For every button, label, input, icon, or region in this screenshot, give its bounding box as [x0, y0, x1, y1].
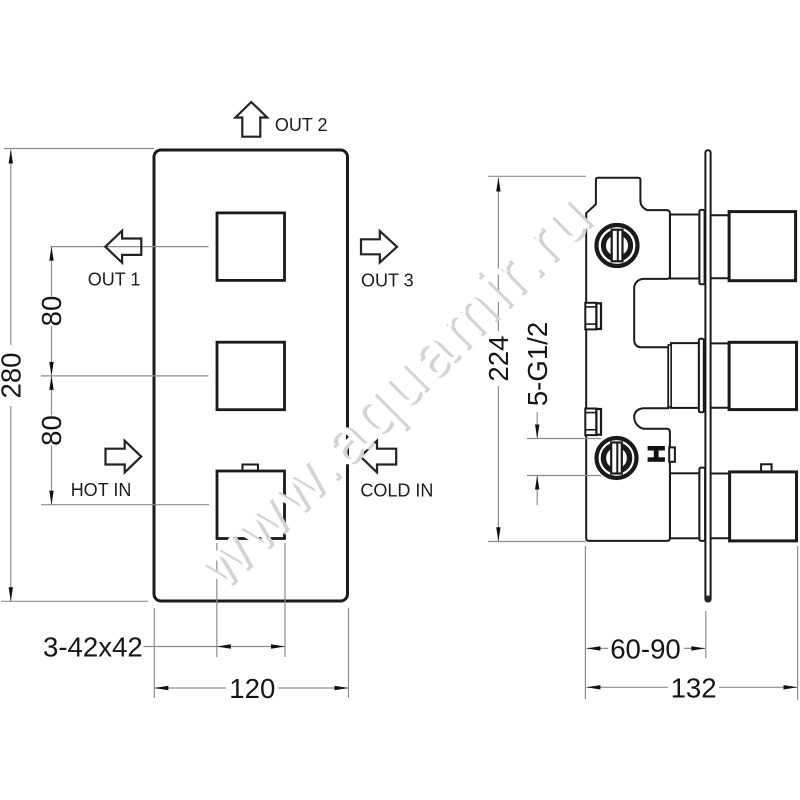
pipe stub A body: [585, 303, 596, 330]
flow arrow COLD IN: [361, 441, 397, 473]
screw top inner arcs: [604, 235, 611, 257]
sleeve row 3: [670, 473, 699, 538]
flow arrow HOT IN: [106, 441, 142, 473]
dim 60-90 line: [586, 647, 608, 649]
dim 80 lower line: [51, 376, 53, 416]
pipe stub B inner lines: [585, 412, 596, 414]
dim 132 line: [586, 686, 668, 688]
screw bottom inner arcs: [604, 448, 610, 469]
knob row 1: [729, 212, 796, 281]
sleeve row 1: [670, 215, 699, 279]
dim 5-G1/2 line lower: [536, 476, 538, 506]
screw bottom inner ring: [602, 444, 631, 473]
dim 80 lower arrowheads: [49, 376, 53, 390]
dim 42x42 arrowheads: [217, 644, 231, 648]
dim 42x42 extension line left: [216, 543, 218, 657]
center extension line row 3: [41, 504, 209, 506]
dim 280 line: [10, 150, 12, 346]
dim 224 extension line bottom: [488, 541, 586, 543]
dim 60-90 arrowheads: [586, 646, 600, 650]
flow arrow OUT 2: [235, 102, 267, 137]
dim 132 arrowheads: [586, 685, 600, 689]
flow arrow OUT 1: [105, 231, 141, 263]
screw top slot: [612, 230, 623, 262]
svg-text:5-G1/2: 5-G1/2: [522, 322, 553, 406]
dim 280 arrowhead top: [9, 150, 13, 164]
dim 60-90 extension line right: [705, 611, 707, 658]
dim 80 upper arrowheads: [49, 247, 53, 261]
dim 5-G1/2 extension lines: [527, 438, 601, 440]
flow arrow OUT 3: [361, 231, 397, 263]
pipe stub A cap: [596, 303, 601, 329]
svg-text:COLD IN: COLD IN: [360, 481, 433, 501]
stem lines row 3: [705, 473, 730, 475]
flange row 2: [699, 339, 704, 413]
watermark www.aquamir.ru embossed: [180, 175, 610, 605]
screw top slot center line: [617, 230, 619, 261]
dim 80 upper line: [51, 247, 53, 296]
pipe stub A inner lines: [585, 306, 596, 308]
dim 120 extension line right: [348, 608, 350, 698]
center extension line row 2: [41, 375, 209, 377]
hot marking H middle bar: [654, 449, 659, 459]
knob row 2: [729, 342, 796, 409]
svg-text:120: 120: [229, 673, 275, 704]
screw bottom outer ring: [597, 438, 637, 478]
dim 5-G1/2 arrowheads: [535, 425, 539, 439]
knob row 3 button tab: [761, 464, 772, 472]
dim 42x42 line: [217, 646, 285, 648]
dim 280 extension line bottom: [1, 600, 148, 602]
stem lines row 2: [705, 342, 730, 344]
svg-text:OUT 1: OUT 1: [88, 270, 141, 290]
knob square 2: [217, 342, 285, 410]
svg-text:OUT 2: OUT 2: [275, 115, 328, 135]
screw bottom slot center line: [616, 443, 618, 473]
svg-text:3-42x42: 3-42x42: [43, 632, 143, 663]
dim 280 arrowhead bottom: [9, 587, 13, 601]
flange row 1: [699, 210, 704, 284]
hot marking H bottom bar: [648, 457, 665, 462]
dim 120 line: [154, 687, 226, 689]
dim 120 extension line left: [153, 608, 155, 698]
svg-text:80: 80: [36, 296, 67, 327]
svg-text:60-90: 60-90: [610, 634, 681, 665]
dim 42x42 leader line: [144, 646, 217, 648]
svg-text:OUT 3: OUT 3: [361, 271, 414, 291]
dim 224 arrowheads: [496, 178, 500, 192]
wall plate edge-on: [705, 150, 710, 601]
svg-text:80: 80: [36, 415, 67, 446]
dim 224 line: [497, 178, 499, 332]
dim 42x42 extension line right: [284, 543, 286, 657]
svg-text:HOT IN: HOT IN: [71, 480, 132, 500]
button tab on square 3: [243, 465, 259, 472]
flange row 3: [699, 468, 705, 541]
center extension line row 1: [51, 246, 209, 248]
dim 132 extension line right: [797, 546, 799, 700]
svg-text:132: 132: [671, 673, 717, 704]
dim 224 extension line top: [488, 175, 586, 177]
dim 60-90 extension line left: [584, 546, 586, 699]
dim 280 extension line top: [4, 148, 154, 150]
svg-text:280: 280: [0, 352, 27, 398]
dim 5-G1/2 line upper: [536, 412, 538, 439]
small tab right of H: [669, 447, 675, 461]
screw bottom slot: [611, 443, 622, 474]
sleeve row 2: [671, 343, 699, 408]
valve body outline: [586, 178, 670, 541]
wall plate bottom tip: [706, 596, 711, 602]
screw top outer ring: [597, 225, 638, 266]
pipe stub B body: [585, 409, 596, 436]
sleeve row 2 end cap: [668, 345, 671, 407]
knob row 3: [730, 472, 797, 541]
knob square 1: [217, 213, 285, 281]
dim 120 arrowheads: [154, 686, 168, 690]
pipe stub B cap: [596, 409, 601, 435]
knob square 3: [217, 471, 285, 539]
hot marking H top bar: [648, 446, 665, 451]
screw top inner ring: [602, 231, 632, 261]
stem lines row 1: [705, 214, 730, 216]
front plate outline: [154, 150, 348, 601]
